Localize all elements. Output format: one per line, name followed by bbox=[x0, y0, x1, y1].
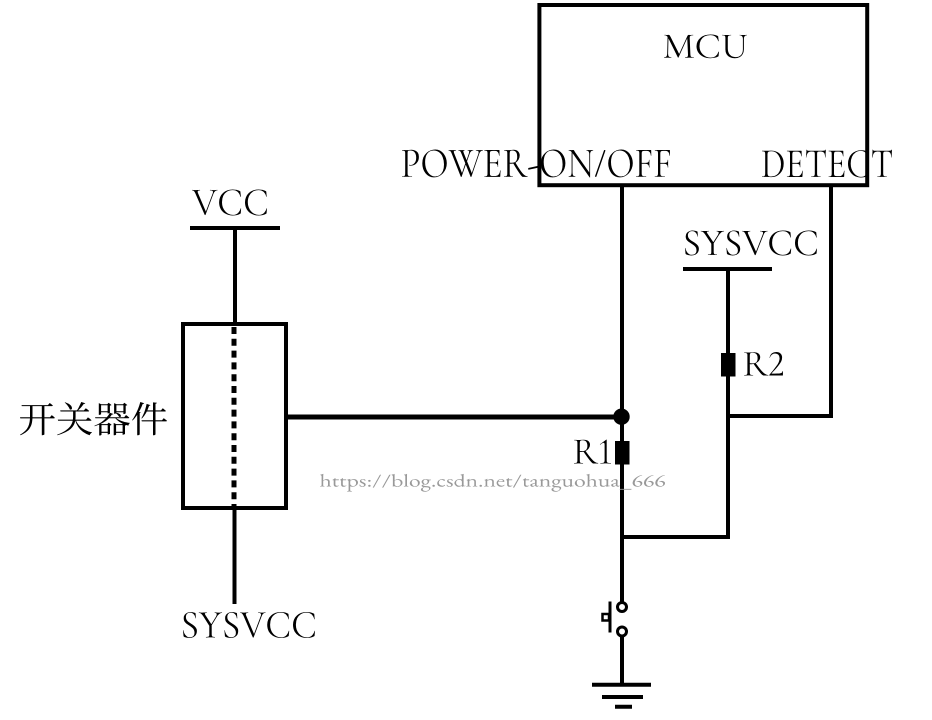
push button actuator bar bbox=[609, 602, 612, 633]
switch device box 开关器件 bbox=[183, 324, 286, 508]
net label SYSVCC top bbox=[685, 231, 817, 256]
push button top contact bbox=[618, 603, 627, 612]
label R2 bbox=[744, 352, 783, 376]
wire DETECT pin: MCU down to R2 wire bbox=[829, 186, 833, 418]
net label SYSVCC bottom bbox=[183, 612, 315, 638]
power symbol VCC bar bbox=[190, 226, 280, 230]
wire POWER-ON/OFF pin: MCU to push button through junction and R1 bbox=[620, 186, 624, 602]
resistor R1 bbox=[615, 441, 630, 465]
wire R1 bottom to R2 net bbox=[620, 535, 730, 539]
MCU box bbox=[539, 5, 867, 185]
label R1 bbox=[574, 440, 611, 464]
wire switch box bottom to SYSVCC net bbox=[233, 508, 237, 604]
wire switch box output to junction bbox=[288, 415, 620, 420]
watermark text bbox=[320, 474, 665, 492]
wire R2 net to DETECT line bbox=[726, 414, 833, 418]
resistor R2 bbox=[721, 353, 736, 377]
label 开关器件 bbox=[20, 402, 167, 436]
junction node dot bbox=[613, 409, 629, 425]
ground symbol bbox=[592, 685, 651, 707]
MCU label bbox=[664, 35, 747, 59]
switch device dashed channel bbox=[232, 327, 237, 508]
pin label DETECT bbox=[762, 150, 892, 178]
wire push button to ground bbox=[620, 637, 624, 685]
wire SYSVCC bar down through R2 to bottom wire bbox=[726, 269, 730, 539]
power symbol SYSVCC bar bbox=[683, 267, 772, 271]
wire VCC bar to switch box bbox=[233, 228, 237, 324]
net label VCC bbox=[192, 190, 267, 216]
pin label POWER-ON/OFF bbox=[402, 150, 670, 178]
push button bottom contact bbox=[618, 627, 627, 636]
push button actuator cap bbox=[603, 614, 610, 621]
